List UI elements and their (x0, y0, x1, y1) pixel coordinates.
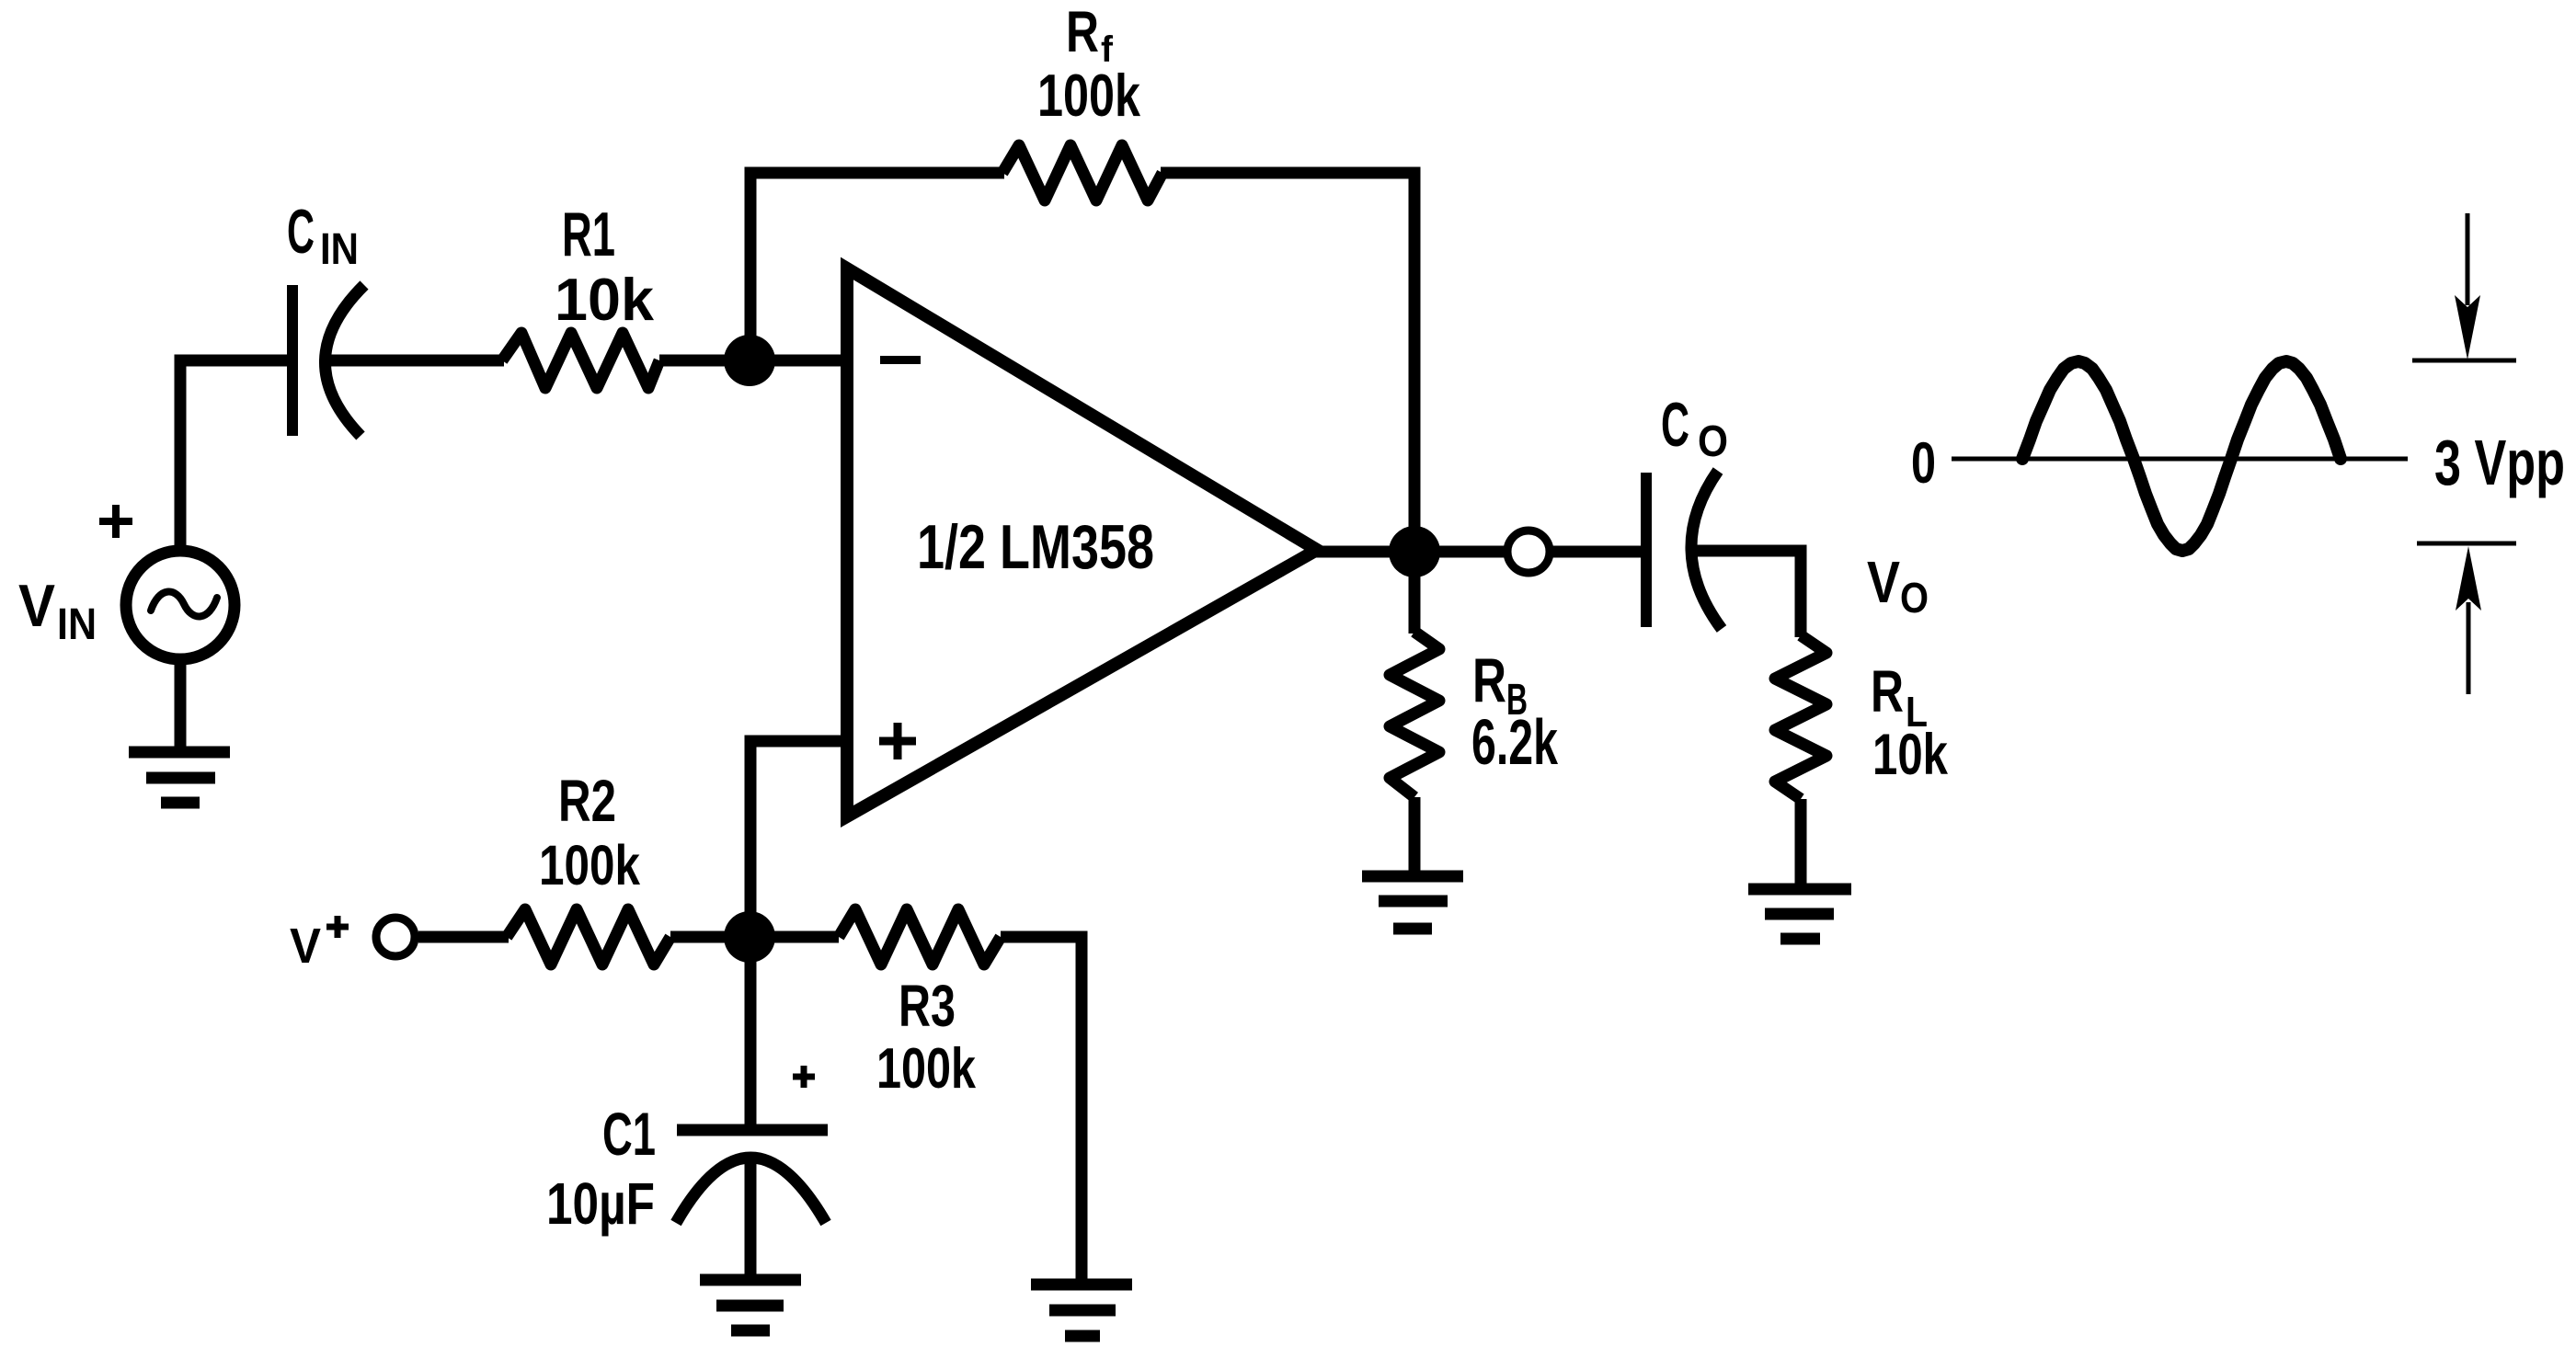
wire: output node down to RB (1409, 552, 1421, 634)
svg-text:O: O (1698, 417, 1728, 466)
voltage source VIN (126, 551, 235, 659)
wire: CIN to R1 (328, 355, 504, 367)
wire: feedback top right segment and right vertical drop (1161, 173, 1414, 552)
wire: CO to RL (1695, 551, 1801, 637)
svg-text:3 Vpp: 3 Vpp (2434, 427, 2565, 498)
svg-text:6.2k: 6.2k (1471, 706, 1558, 778)
wire: RL to ground (1795, 799, 1807, 889)
svg-text:100k: 100k (876, 1037, 976, 1101)
resistor R2 (507, 909, 670, 965)
wire: VIN top lead to CIN (180, 360, 289, 548)
node C (bias junction) (724, 911, 775, 963)
resistor Rf (1002, 145, 1162, 200)
output sine wave (2022, 361, 2341, 551)
terminal V+ (376, 918, 415, 956)
dimension tick (trough level) (2417, 542, 2516, 546)
wire: R2 to bias junction (670, 931, 839, 943)
dimension tick (peak level) (2412, 359, 2516, 363)
minus sign (inverting input) (880, 356, 921, 364)
resistor R3 (839, 909, 1001, 965)
wire: VIN bottom lead (175, 662, 187, 752)
node A (inverting input junction) (724, 335, 775, 386)
svg-text:10k: 10k (555, 266, 655, 333)
svg-text:C1: C1 (602, 1100, 656, 1168)
capacitor CO (1641, 473, 1652, 627)
wire: C1 to ground (745, 1160, 757, 1280)
capacitor C1 (677, 1124, 828, 1136)
ground (C1) (700, 1280, 801, 1330)
resistor RB (1390, 632, 1439, 797)
wire: R3 to ground corner (1001, 937, 1082, 1284)
ground (RB) (1362, 876, 1463, 929)
wire: noninverting input vertical from bias junction (750, 741, 847, 937)
svg-text:1/2 LM358: 1/2 LM358 (917, 512, 1154, 582)
wire: V+ terminal to R2 (418, 931, 509, 943)
svg-text:100k: 100k (1037, 62, 1141, 129)
svg-text:R3: R3 (899, 973, 956, 1039)
svg-text:100k: 100k (539, 834, 640, 896)
svg-text:R: R (1066, 0, 1099, 64)
plus sign (V+ superscript) (326, 916, 349, 938)
open terminal (output) (1507, 531, 1550, 573)
resistor R1 (502, 333, 659, 388)
node B (output junction) (1389, 526, 1440, 577)
svg-text:V: V (290, 919, 321, 974)
wire: R1 to inverting input (659, 355, 847, 367)
wire: RB to ground (1409, 797, 1421, 876)
wire: op-amp output to output node (1315, 546, 1506, 558)
waveform zero baseline (1952, 457, 2408, 462)
svg-text:V: V (18, 572, 55, 639)
svg-text:0: 0 (1911, 431, 1936, 496)
wire: bias junction down to C1 (745, 937, 757, 1125)
ground (VIN) (129, 752, 230, 803)
resistor RL (1775, 635, 1826, 799)
svg-text:IN: IN (320, 225, 359, 274)
svg-text:R2: R2 (558, 768, 616, 834)
svg-text:10µF: 10µF (546, 1170, 655, 1237)
op-amp U1 (1/2 LM358) (847, 268, 1317, 816)
capacitor CIN (287, 285, 298, 436)
svg-text:10k: 10k (1872, 723, 1949, 787)
plus sign (VIN polarity) (99, 505, 132, 538)
dimension arrow (top, pointing down) (2466, 213, 2470, 305)
dimension arrow (bottom, pointing up) (2456, 546, 2481, 611)
ground (RL) (1748, 889, 1851, 939)
svg-text:R: R (1871, 658, 1904, 725)
svg-text:V: V (1867, 549, 1900, 615)
svg-text:C: C (1661, 390, 1689, 460)
plus sign (noninverting input) (879, 723, 916, 759)
ground (R3) (1031, 1284, 1132, 1336)
svg-text:R: R (1472, 645, 1506, 715)
wire: terminal to CO (1552, 546, 1641, 558)
plus sign (C1 polarity) (793, 1066, 815, 1088)
svg-text:R1: R1 (562, 200, 615, 269)
wire: feedback left vertical and top left segment (750, 173, 1004, 360)
svg-text:O: O (1900, 574, 1929, 622)
svg-text:IN: IN (57, 600, 97, 649)
svg-text:C: C (287, 197, 315, 267)
